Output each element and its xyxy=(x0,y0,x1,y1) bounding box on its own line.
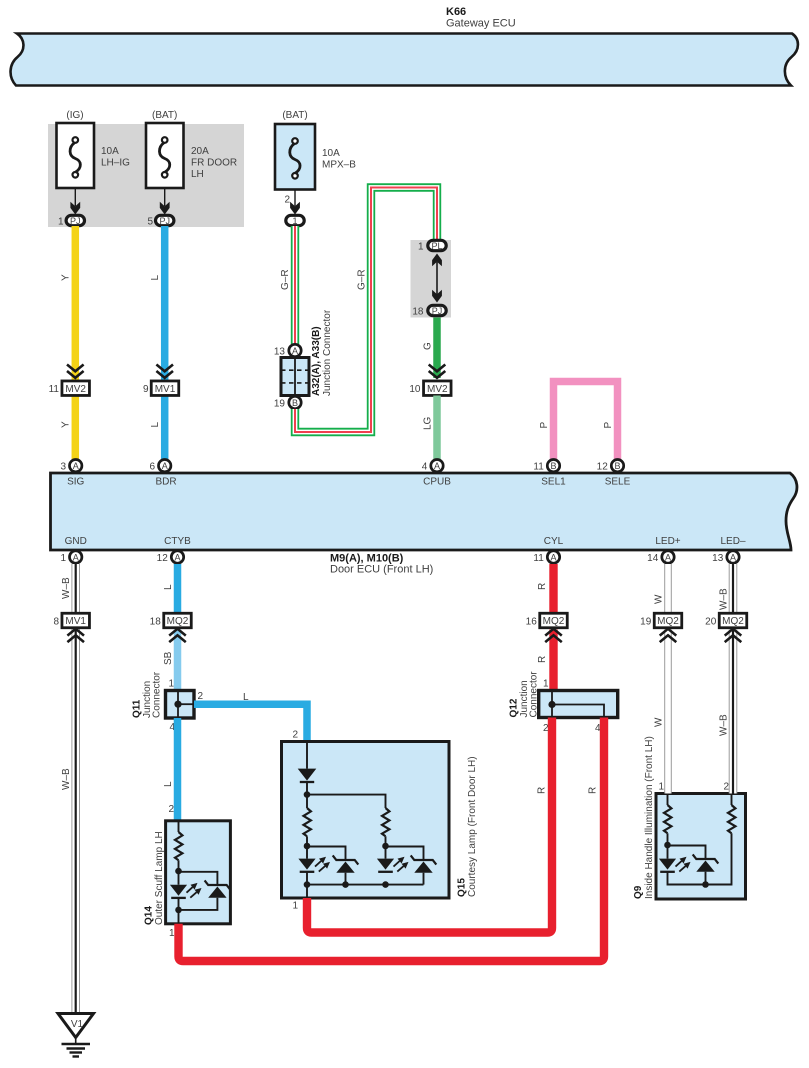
svg-text:6: 6 xyxy=(149,462,155,473)
connector 20 MQ2 xyxy=(705,613,747,642)
svg-text:13: 13 xyxy=(712,553,724,564)
connector 19 MQ2 xyxy=(640,613,682,642)
svg-text:2: 2 xyxy=(284,195,290,206)
svg-text:1: 1 xyxy=(169,928,175,939)
svg-text:Q9: Q9 xyxy=(633,885,644,899)
svg-text:19: 19 xyxy=(640,617,652,628)
wire W LED+ to MQ2 xyxy=(664,564,672,618)
svg-text:19: 19 xyxy=(274,399,286,410)
svg-text:12: 12 xyxy=(157,553,169,564)
svg-text:A: A xyxy=(665,553,671,563)
fuse 20A FR DOOR LH xyxy=(146,110,237,188)
lamp Q14 Outer Scuff Lamp LH xyxy=(144,804,231,939)
svg-text:SIG: SIG xyxy=(67,477,84,488)
connector pin 1 PJ xyxy=(58,215,85,227)
wire R MQ2 to Q12 pin1 xyxy=(549,630,557,693)
svg-text:(BAT): (BAT) xyxy=(282,110,307,121)
fuse 10A MPX-B xyxy=(275,110,356,190)
svg-text:18: 18 xyxy=(150,617,162,628)
lamp Q15 Courtesy Lamp (Front Door LH) xyxy=(282,730,479,912)
svg-text:B: B xyxy=(292,398,298,408)
wire L (blue) fuse2 to MV1 xyxy=(161,226,169,459)
wire W-B GND to ground xyxy=(71,564,80,1013)
wire P (pink) SEL1 to SELE xyxy=(554,382,618,460)
svg-text:20: 20 xyxy=(705,617,717,628)
svg-text:9: 9 xyxy=(143,384,149,395)
svg-text:1: 1 xyxy=(168,679,174,690)
svg-text:MPX–B: MPX–B xyxy=(322,160,356,171)
svg-text:2: 2 xyxy=(168,804,174,815)
svg-text:Door ECU (Front LH): Door ECU (Front LH) xyxy=(330,564,433,576)
wire SB MQ2 to Q11 xyxy=(174,630,182,693)
wire L Q11 pin2 to Q15 pin2 xyxy=(194,704,307,741)
svg-text:W–B: W–B xyxy=(719,588,730,610)
svg-text:10: 10 xyxy=(409,384,421,395)
svg-text:3: 3 xyxy=(60,462,66,473)
svg-text:12: 12 xyxy=(597,462,609,473)
svg-text:Outer Scuff Lamp LH: Outer Scuff Lamp LH xyxy=(154,831,165,925)
svg-text:G–R: G–R xyxy=(357,269,368,290)
svg-text:1: 1 xyxy=(58,217,64,228)
wire fuse3 pin 2 to connector 1 xyxy=(284,190,299,215)
wire G-R fuse3 to junction connector A xyxy=(291,226,299,344)
svg-text:1: 1 xyxy=(60,553,66,564)
svg-text:R: R xyxy=(537,583,548,590)
node 19 B xyxy=(274,396,301,409)
wire G-R junction B loop to PL xyxy=(295,188,437,433)
connector 11 MV2 xyxy=(49,365,90,396)
svg-text:16: 16 xyxy=(526,617,538,628)
svg-text:A: A xyxy=(434,461,440,471)
svg-text:Q14: Q14 xyxy=(144,906,155,925)
svg-text:SEL1: SEL1 xyxy=(541,477,566,488)
svg-text:P: P xyxy=(603,422,614,429)
svg-text:G–R: G–R xyxy=(280,269,291,290)
svg-text:SELE: SELE xyxy=(605,477,631,488)
svg-text:L: L xyxy=(150,275,161,281)
connector 16 MQ2 xyxy=(526,613,568,642)
wire Y (yellow) fuse1 to MV2 xyxy=(72,226,80,459)
svg-text:R: R xyxy=(588,787,599,794)
svg-text:2: 2 xyxy=(198,691,204,702)
fuse block panel (gray) xyxy=(48,124,244,227)
svg-text:Q15: Q15 xyxy=(457,878,468,897)
svg-text:W: W xyxy=(654,717,665,727)
svg-text:PJ: PJ xyxy=(432,306,443,316)
svg-text:(IG): (IG) xyxy=(66,110,83,121)
svg-text:MQ2: MQ2 xyxy=(722,616,744,627)
svg-text:A: A xyxy=(550,553,556,563)
svg-text:A32(A), A33(B): A32(A), A33(B) xyxy=(311,326,322,396)
ground V1 xyxy=(58,1014,94,1057)
junction connector Q11 xyxy=(132,671,204,733)
pin 3 A SIG xyxy=(60,460,84,488)
wire L Q11 pin4 to Q14 pin2 xyxy=(174,718,182,821)
svg-text:A: A xyxy=(73,461,79,471)
svg-text:A: A xyxy=(730,553,736,563)
svg-text:MV2: MV2 xyxy=(65,384,86,395)
pin 11 A CYL xyxy=(533,536,563,564)
svg-text:W–B: W–B xyxy=(61,577,72,599)
svg-text:Inside Handle Illumination (Fr: Inside Handle Illumination (Front LH) xyxy=(644,736,655,899)
svg-text:A: A xyxy=(292,346,298,356)
svg-text:18: 18 xyxy=(412,307,424,318)
svg-text:MV2: MV2 xyxy=(427,384,448,395)
svg-text:LH–IG: LH–IG xyxy=(101,158,130,169)
svg-text:L: L xyxy=(243,692,249,703)
svg-text:K66: K66 xyxy=(446,6,466,18)
lamp Q9 Inside Handle Illumination (Front LH) xyxy=(633,736,746,899)
svg-text:SB: SB xyxy=(163,651,174,665)
wire fuse2 to connector PJ xyxy=(160,188,170,215)
connector panel gray PL/PJ xyxy=(411,240,452,318)
svg-text:4: 4 xyxy=(422,462,428,473)
svg-text:G: G xyxy=(423,342,434,350)
svg-text:11: 11 xyxy=(533,462,544,473)
wire G (green) PJ to MV2 xyxy=(433,318,441,379)
svg-text:GND: GND xyxy=(65,536,87,547)
wire R Q12 pin4 to Q14 pin1 xyxy=(179,718,605,962)
wire R Q12 pin2 to Q15 pin1 xyxy=(307,718,552,933)
svg-text:V1: V1 xyxy=(71,1019,84,1030)
svg-text:2: 2 xyxy=(723,782,729,793)
svg-text:LH: LH xyxy=(191,169,204,180)
svg-text:Y: Y xyxy=(61,274,72,281)
svg-text:CPUB: CPUB xyxy=(423,477,451,488)
svg-text:11: 11 xyxy=(533,553,544,564)
svg-text:PL: PL xyxy=(431,241,442,251)
svg-text:LED–: LED– xyxy=(720,536,745,547)
svg-text:W: W xyxy=(654,594,665,604)
pin 14 A LED+ xyxy=(647,536,681,564)
connector 8 MV1 xyxy=(53,613,89,642)
connector pin 1 PL xyxy=(418,240,446,252)
svg-text:R: R xyxy=(537,656,548,663)
svg-text:A: A xyxy=(162,461,168,471)
svg-text:BDR: BDR xyxy=(155,477,176,488)
svg-text:B: B xyxy=(614,461,620,471)
wire W-B MQ2 to Q9 pin2 xyxy=(729,630,738,794)
svg-text:Junction Connector: Junction Connector xyxy=(322,309,333,396)
svg-text:A: A xyxy=(73,553,79,563)
connector 9 MV1 xyxy=(143,365,179,396)
svg-text:(BAT): (BAT) xyxy=(152,110,177,121)
svg-text:R: R xyxy=(537,787,548,794)
svg-text:Connector: Connector xyxy=(152,671,163,718)
connector mating arrows PL-PJ xyxy=(432,254,442,303)
svg-text:10A: 10A xyxy=(101,146,119,157)
svg-text:A: A xyxy=(174,553,180,563)
svg-text:MV1: MV1 xyxy=(65,616,86,627)
svg-text:Gateway ECU: Gateway ECU xyxy=(446,18,516,30)
wire fuse1 to connector PJ xyxy=(70,188,80,215)
junction connector Q12 xyxy=(509,671,618,734)
svg-text:5: 5 xyxy=(147,217,153,228)
svg-text:10A: 10A xyxy=(322,148,340,159)
ECU M9(A) M10(B) Door ECU (Front LH) band xyxy=(51,473,797,576)
svg-text:Q12: Q12 xyxy=(509,698,520,717)
svg-text:LED+: LED+ xyxy=(655,536,680,547)
svg-text:Courtesy Lamp (Front Door LH): Courtesy Lamp (Front Door LH) xyxy=(467,756,478,897)
svg-text:1: 1 xyxy=(418,242,424,253)
svg-text:P: P xyxy=(539,422,550,429)
wire L CTYB to MQ2 xyxy=(174,564,182,618)
svg-text:1: 1 xyxy=(658,782,664,793)
pin 12 B SELE xyxy=(597,460,631,488)
svg-text:L: L xyxy=(163,584,174,590)
svg-text:1: 1 xyxy=(292,901,298,912)
pin 6 A BDR xyxy=(149,460,176,488)
pin 11 B SEL1 xyxy=(533,460,566,488)
node 13 A xyxy=(274,344,301,357)
connector pin 5 PJ xyxy=(147,215,173,227)
svg-text:CTYB: CTYB xyxy=(164,536,191,547)
svg-text:MQ2: MQ2 xyxy=(167,616,189,627)
svg-text:Q11: Q11 xyxy=(132,699,143,718)
ECU K66 Gateway ECU band xyxy=(11,6,798,86)
svg-text:PJ: PJ xyxy=(70,216,81,226)
wire R CYL to MQ2 xyxy=(549,564,557,618)
svg-text:1: 1 xyxy=(543,679,549,690)
pin 4 A CPUB xyxy=(422,460,451,488)
connector pin oval 1 xyxy=(286,215,304,226)
svg-text:B: B xyxy=(550,461,556,471)
junction connector A32(A), A33(B) block xyxy=(281,309,333,396)
svg-text:11: 11 xyxy=(49,384,60,395)
svg-text:CYL: CYL xyxy=(544,536,564,547)
svg-text:L: L xyxy=(163,781,174,787)
svg-text:MV1: MV1 xyxy=(155,384,176,395)
wire W-B LED- to MQ2 xyxy=(729,564,738,618)
svg-text:Connector: Connector xyxy=(529,671,540,718)
svg-text:FR DOOR: FR DOOR xyxy=(191,158,237,169)
pin 12 A CTYB xyxy=(157,536,191,564)
wire LG (light green) MV2 to CPUB xyxy=(433,396,441,460)
pin 13 A LED- xyxy=(712,536,746,564)
connector 18 MQ2 xyxy=(150,613,192,642)
svg-text:W–B: W–B xyxy=(61,768,72,790)
svg-text:MQ2: MQ2 xyxy=(657,616,679,627)
fuse 10A LH-IG xyxy=(57,110,131,188)
svg-text:14: 14 xyxy=(647,553,659,564)
svg-text:Y: Y xyxy=(61,421,72,428)
svg-text:W–B: W–B xyxy=(719,714,730,736)
svg-text:MQ2: MQ2 xyxy=(543,616,565,627)
svg-text:L: L xyxy=(150,422,161,428)
wire W MQ2 to Q9 pin1 xyxy=(664,630,672,794)
pin 1 A GND xyxy=(60,536,86,564)
svg-text:8: 8 xyxy=(53,617,59,628)
connector pin 18 PJ xyxy=(412,305,446,317)
svg-text:LG: LG xyxy=(423,416,434,430)
svg-text:1: 1 xyxy=(292,216,297,226)
svg-text:20A: 20A xyxy=(191,146,209,157)
svg-text:2: 2 xyxy=(292,730,298,741)
connector 10 MV2 xyxy=(409,365,451,396)
svg-text:PJ: PJ xyxy=(159,216,170,226)
svg-text:13: 13 xyxy=(274,347,286,358)
